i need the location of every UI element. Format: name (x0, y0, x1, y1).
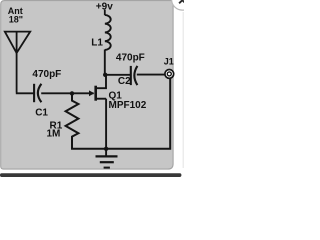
wire J1 down and bottom wire to R1 (71, 79, 170, 149)
wire source to ground (105, 99, 107, 149)
transistor Q1 channel bar (94, 86, 97, 101)
svg-text:C1: C1 (35, 108, 48, 119)
connector J1 jack (165, 70, 174, 79)
transistor Q1 source lead (96, 98, 106, 100)
svg-text:+9v: +9v (96, 1, 113, 12)
svg-text:C2: C2 (118, 76, 131, 87)
dark band (top edge of element below) (0, 173, 181, 177)
svg-text:1M: 1M (47, 129, 61, 140)
wire antenna to C1 (16, 53, 34, 94)
supply stub +9v (104, 10, 106, 16)
white page background (0, 0, 184, 180)
capacitor C1 (33, 84, 35, 102)
wire C1 to gate junction and gate (41, 92, 93, 94)
gate arrow of Q1 (89, 90, 94, 96)
ground bar 3 (104, 167, 110, 169)
node: gate junction dot (70, 91, 74, 95)
ground stub (105, 149, 107, 157)
wire L1 to drain node (104, 50, 106, 76)
node: drain node dot (103, 73, 107, 77)
transistor Q1 drain lead (96, 75, 106, 88)
svg-text:J1: J1 (164, 57, 174, 67)
scrollbar hint line (182, 12, 185, 168)
resistor R1 (66, 95, 79, 150)
wire drain node to C2 (105, 74, 131, 76)
svg-text:470pF: 470pF (32, 69, 61, 80)
ground bar 2 (100, 161, 114, 163)
antenna A1 (5, 32, 30, 53)
inductor L1 (105, 15, 111, 50)
close button X (179, 0, 185, 3)
wire C2 to J1 (137, 74, 165, 76)
node: ground junction dot (104, 147, 108, 151)
ground bar 1 (96, 155, 118, 157)
svg-text:L1: L1 (91, 37, 103, 48)
capacitor C2 (130, 66, 132, 85)
svg-text:470pF: 470pF (116, 52, 145, 63)
close button circle (172, 0, 193, 10)
gray schematic panel (1, 1, 173, 170)
svg-text:18": 18" (9, 15, 23, 25)
svg-text:MPF102: MPF102 (109, 100, 147, 111)
